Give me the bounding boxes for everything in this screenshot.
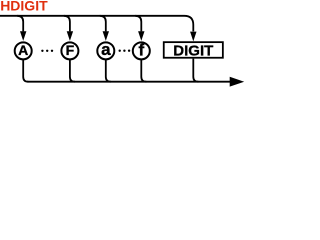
svg-text:DIGIT: DIGIT [173, 42, 213, 59]
terminal circle F [61, 42, 78, 59]
svg-text:F: F [66, 42, 75, 58]
arrowhead exit right [230, 77, 245, 87]
terminal circle a [97, 42, 114, 59]
terminal circle f [133, 42, 150, 59]
wire branch to F [64, 16, 70, 32]
arrowhead into DIGIT [190, 32, 196, 42]
wire F to bottom rail [70, 59, 75, 81]
arrowhead into A [20, 31, 26, 41]
wire a to bottom rail [106, 59, 111, 81]
svg-text:a: a [101, 40, 111, 59]
wire branch to f [135, 16, 141, 32]
svg-text:A: A [18, 42, 28, 58]
wire top rail [0, 16, 193, 32]
wire DIGIT to bottom rail [193, 59, 198, 82]
wire branch to A [17, 16, 23, 32]
terminal circle A [15, 42, 32, 59]
ellipsis dots A..F [41, 50, 43, 52]
ellipsis dots a..f [119, 50, 121, 52]
wire branch to a [100, 16, 106, 32]
nonterminal box DIGIT [164, 42, 223, 58]
arrowhead into F [67, 31, 73, 41]
arrowhead into f [138, 31, 144, 41]
svg-text:HDIGIT: HDIGIT [0, 0, 48, 14]
wire bottom rail [28, 81, 231, 83]
wire f to bottom rail [141, 59, 146, 81]
wire A to bottom rail [23, 59, 28, 81]
arrowhead into a [103, 31, 109, 41]
svg-text:f: f [138, 40, 144, 59]
